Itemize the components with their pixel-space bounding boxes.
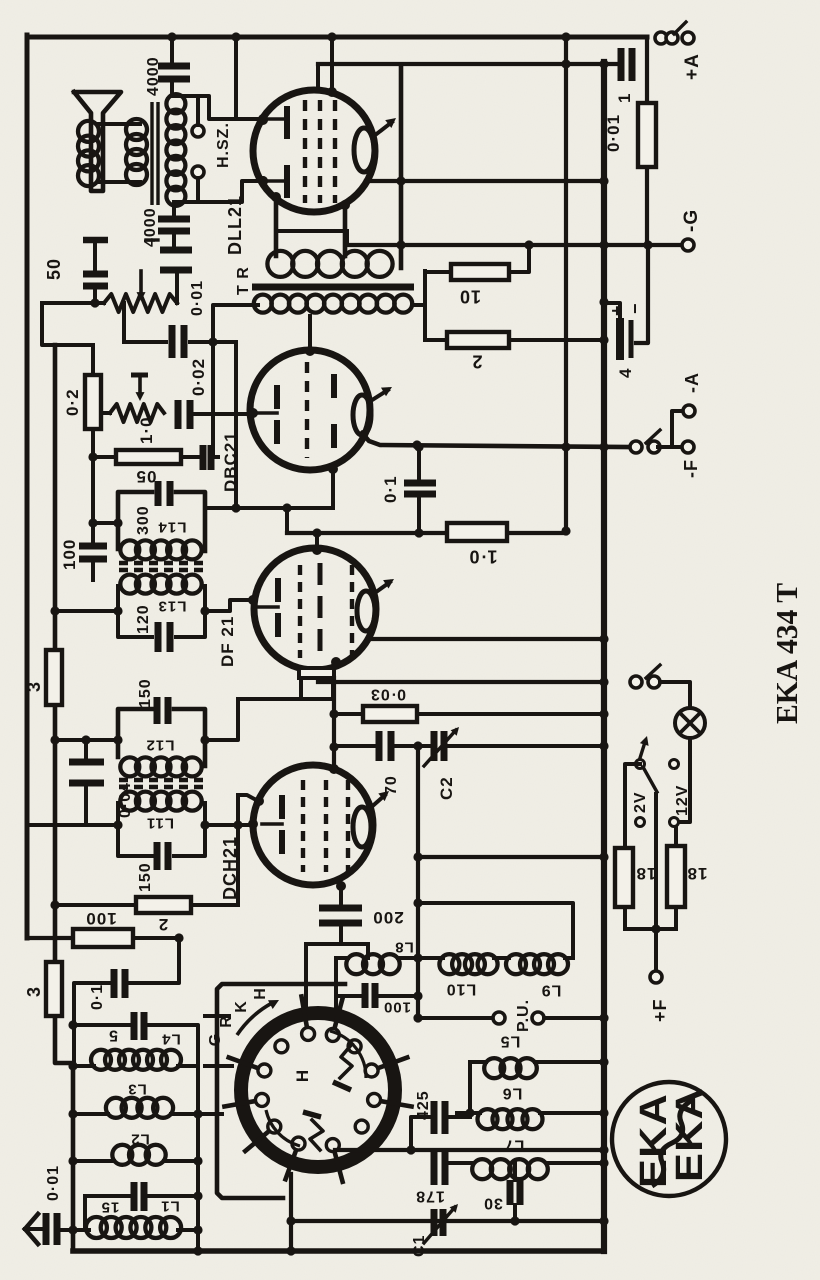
wire TR secondary left feed x=213 — [213, 305, 258, 457]
svg-text:L14: L14 — [158, 519, 187, 536]
terminal H.SZ. upper — [192, 125, 204, 137]
resistor 0.2 vertical — [91, 345, 95, 375]
svg-text:3: 3 — [24, 681, 44, 692]
tube DLL21 anode ellipse — [354, 128, 374, 172]
wire grid row DBC21 y=414 — [194, 412, 250, 416]
wire base box drop — [299, 678, 303, 699]
capacitor 0.1 (row447 to row533) — [417, 447, 421, 479]
wire DLL21 pin to TR center — [343, 205, 348, 256]
wire DLL21 anode row y=181 — [366, 179, 604, 183]
wire left antenna rail x=27 — [25, 35, 30, 938]
tube DF21 base box — [299, 668, 334, 678]
resistor 2 (TR) — [425, 338, 447, 342]
svg-text:L2: L2 — [130, 1131, 150, 1148]
wire switch bottom stub — [289, 1174, 293, 1251]
wire row y=903 — [418, 903, 573, 958]
wire osc grid row y=825 — [27, 823, 118, 827]
wire to dial lamp — [660, 682, 690, 708]
svg-text:+A: +A — [682, 53, 703, 80]
wire DF21 anode row y=639 — [368, 637, 604, 641]
wire switch left taps — [205, 1014, 229, 1018]
IFT1 L11 box — [118, 803, 152, 856]
tube DF21 pin dots — [312, 545, 322, 555]
IFT2 L13 box — [118, 586, 152, 637]
svg-text:P.U.: P.U. — [515, 999, 532, 1032]
svg-text:0·01: 0·01 — [45, 1165, 62, 1201]
capacitor 15 row — [85, 1194, 130, 1198]
switch inner arc upper — [330, 1031, 366, 1078]
svg-text:4000: 4000 — [145, 56, 162, 96]
coil L6 — [457, 1111, 480, 1115]
coil L11 — [120, 792, 139, 811]
capacitor 300 — [155, 481, 162, 506]
wire x=198 lower — [196, 1114, 200, 1251]
wire row y=944 — [306, 942, 368, 946]
capacitor 0.1 osc — [111, 969, 118, 998]
capacitor 4000 top — [158, 63, 190, 70]
svg-text:0·02: 0·02 — [189, 358, 208, 396]
antenna arrow — [25, 1227, 42, 1231]
wire row y=303 — [42, 301, 104, 305]
capacitor 0.01 (speaker chain) — [160, 247, 192, 254]
svg-text:150: 150 — [137, 678, 154, 708]
svg-text:L10: L10 — [446, 980, 477, 997]
svg-text:L12: L12 — [146, 737, 175, 754]
wire grid feed x=236 — [234, 37, 238, 119]
svg-text:L3: L3 — [127, 1081, 147, 1098]
transformer TR primary coil — [267, 251, 293, 277]
svg-text:L5: L5 — [500, 1032, 521, 1049]
svg-text:L8: L8 — [394, 939, 414, 956]
wire grid row y=611 from bus — [55, 609, 118, 613]
wire row to 100k resistor (y=938) — [27, 936, 75, 940]
wire x=93 to IFT2 — [91, 457, 95, 523]
svg-text:10: 10 — [459, 287, 481, 307]
wire row y=1150 — [335, 1148, 604, 1152]
wire blade output to +F — [654, 794, 658, 971]
svg-text:+F: +F — [650, 998, 670, 1022]
terminal group +A with switch — [655, 32, 667, 44]
svg-text:-A: -A — [682, 372, 702, 393]
tube DLL21 grid dashes — [303, 100, 307, 203]
wire DCH21 right link x=238 — [236, 795, 240, 905]
transformer TR secondary coil — [254, 295, 272, 313]
coil L10 — [418, 956, 443, 960]
switch wiper contact upper — [340, 1044, 352, 1078]
logo EKA circle — [612, 1082, 726, 1196]
speaker horn — [74, 92, 121, 191]
wire 0.1 osc left lead — [74, 983, 114, 1063]
capacitor 4000 bottom — [158, 216, 190, 223]
svg-text:H: H — [252, 988, 269, 1000]
band arrow arc — [237, 1003, 272, 1035]
capacitor DBC21 coupling — [181, 455, 199, 459]
wire -A/-F bracket — [658, 445, 672, 449]
svg-text:L7: L7 — [504, 1136, 525, 1153]
svg-text:+: + — [607, 304, 627, 316]
wire row y=905 — [55, 903, 136, 907]
switch -F blade — [630, 441, 642, 453]
svg-text:K: K — [233, 1001, 250, 1013]
coil L14 — [120, 540, 139, 559]
coil L7 — [445, 1161, 473, 1165]
wire long vertical x=566 — [564, 37, 568, 531]
capacitor 0.04 — [84, 740, 88, 759]
wire top rail (+A feed, portrait row y=37) — [27, 35, 647, 40]
wire anode riser x=401 — [399, 65, 404, 268]
tube DLL21 anode arrow — [374, 122, 392, 136]
svg-text:2: 2 — [471, 352, 482, 372]
tube DF21 filament bars — [275, 578, 281, 602]
terminal -G — [682, 239, 694, 251]
svg-text:425: 425 — [415, 1090, 432, 1120]
capacitor 50 — [83, 237, 108, 244]
svg-text:C2: C2 — [437, 776, 456, 800]
svg-text:L1: L1 — [160, 1198, 180, 1215]
wire 0.1 osc right lead — [130, 938, 179, 983]
tube DBC21 grid dash — [305, 362, 309, 458]
wire second top row y=64 — [318, 62, 618, 66]
resistor 3 (bus upper) — [46, 650, 62, 705]
wire PU row — [418, 1016, 493, 1020]
wire bias tap row y=231 — [276, 229, 347, 233]
wire DCH21 top-left pin row — [238, 795, 258, 801]
wire filament riser x=334 — [332, 678, 336, 769]
selector contacts — [670, 760, 679, 769]
coil L13 — [120, 575, 139, 594]
svg-text:H.SZ.: H.SZ. — [215, 122, 232, 168]
terminal -A — [683, 405, 695, 417]
svg-text:4: 4 — [616, 368, 635, 378]
wire lamp row y=682 — [318, 680, 604, 684]
svg-text:L6: L6 — [502, 1084, 523, 1101]
wire osc trunk x=418 — [416, 746, 420, 1018]
svg-text:H: H — [293, 1070, 312, 1082]
socket ring — [241, 1013, 395, 1167]
trimmer C2 — [431, 731, 438, 761]
antenna capacitor 0.01 — [43, 1213, 50, 1245]
svg-text:18: 18 — [687, 864, 708, 883]
svg-text:05: 05 — [136, 467, 157, 486]
speaker voice coil — [78, 121, 99, 142]
resistor 100 — [73, 929, 133, 947]
switch wiper contact lower — [310, 1120, 323, 1150]
svg-text:T R: T R — [235, 266, 252, 295]
resistor 1.0 AF — [447, 523, 507, 541]
capacitor 100 IF — [91, 523, 95, 546]
capacitor 200 — [339, 886, 343, 906]
wire 0.03 row y=714 — [334, 712, 363, 716]
coil L12 — [120, 757, 139, 776]
logo EKA script — [652, 1100, 692, 1186]
capacitor 120 — [155, 622, 162, 652]
battery 4V plates — [616, 318, 624, 360]
wire speaker coil top — [98, 122, 140, 126]
capacitor 70 — [376, 731, 383, 761]
svg-text:3: 3 — [24, 986, 44, 997]
svg-text:1·0: 1·0 — [468, 547, 497, 567]
svg-text:150: 150 — [137, 862, 154, 892]
wire resistor bottoms row — [623, 907, 627, 929]
svg-text:5: 5 — [108, 1026, 118, 1043]
svg-text:0·01: 0·01 — [189, 280, 206, 316]
resistor 2 (osc) — [136, 897, 191, 913]
wire corner to left bus — [42, 303, 93, 345]
wire speaker coil bottom — [98, 180, 140, 184]
IFT2 core dashes — [119, 561, 205, 566]
tube DBC21 filament bars — [274, 385, 280, 409]
wire +A dropper column x=647 — [645, 37, 649, 103]
capacitor 5 — [131, 1012, 138, 1040]
IFT1 L12 box — [118, 709, 152, 757]
svg-text:15: 15 — [101, 1199, 120, 1216]
capacitor 150 upper — [154, 697, 161, 724]
wire AVC row y=746 — [334, 744, 374, 748]
svg-text:100: 100 — [383, 999, 411, 1016]
terminal +F — [650, 971, 662, 983]
svg-text:L13: L13 — [158, 598, 187, 615]
wire DF21 top pin — [315, 533, 319, 550]
wire vertical x=236 to detector row — [234, 342, 238, 508]
wire L5-L6 riser — [468, 1062, 472, 1113]
wire L5 row — [470, 1060, 486, 1064]
tube DCH21 envelope — [253, 765, 373, 885]
transformer TR core bar — [252, 284, 414, 291]
pot2 wiper — [131, 373, 148, 378]
wire detector row y=508 — [205, 506, 333, 510]
wire DBC21 bottom pin to detector row — [331, 469, 335, 508]
capacitor 100 osc — [336, 994, 361, 998]
wire row y=533 — [287, 531, 563, 535]
coil L2 row — [73, 1159, 114, 1163]
svg-text:300: 300 — [135, 505, 152, 535]
wire HSZ top row — [172, 96, 262, 119]
wire capA right lead — [190, 340, 236, 344]
tube DCH21 grid dashes — [301, 780, 305, 872]
trimmer C1 — [431, 1209, 438, 1236]
svg-text:0·2: 0·2 — [63, 388, 82, 416]
IFT1 core dashes — [119, 778, 205, 783]
potentiometer zigzag 50k — [104, 294, 177, 312]
svg-text:178: 178 — [415, 1187, 445, 1204]
svg-text:L4: L4 — [161, 1031, 181, 1048]
svg-text:30: 30 — [483, 1194, 503, 1211]
transformer core (speaker) — [150, 102, 153, 205]
wire L4-L3 right vert x=198 — [196, 1066, 200, 1114]
selector blade — [643, 767, 657, 792]
wire 12V contact to resistor 18b — [674, 827, 678, 846]
wire row y=523 — [93, 521, 118, 525]
tube DBC21 diode plates — [331, 374, 337, 398]
wire link row508-row533 — [285, 508, 289, 533]
terminal H.SZ. lower — [192, 166, 204, 178]
svg-text:0·03: 0·03 — [370, 685, 406, 702]
wire -F switch row y=447 — [362, 433, 630, 447]
wire node x=425 — [423, 271, 427, 340]
dial lamp switch — [630, 676, 642, 688]
svg-text:12V: 12V — [674, 785, 691, 816]
tube DLL21 envelope — [253, 90, 375, 212]
svg-text:EKA 434 T: EKA 434 T — [769, 583, 804, 724]
wire cap5 row y=1025 — [73, 1023, 130, 1027]
IFT2 L14 box — [118, 492, 152, 549]
tube DBC21 anode arrow — [369, 390, 388, 402]
svg-text:0·1: 0·1 — [89, 984, 106, 1010]
resistor 0.03 — [363, 706, 417, 722]
wire IFT1 link row y=699 — [238, 682, 333, 699]
capacitor 425 — [448, 1115, 470, 1119]
tube DCH21 anode ellipse — [353, 807, 371, 847]
wire lamp to 12V contact — [679, 738, 690, 822]
resistor 18a — [615, 848, 633, 907]
resistor 0.01 1W vertical — [638, 103, 656, 167]
tube DBC21 pin dots — [305, 346, 315, 356]
wire -G row y=245 — [347, 243, 683, 247]
tube DBC21 anode ellipse — [353, 395, 371, 435]
wire row y=64 corner to tube — [316, 64, 320, 91]
tube DCH21 pin dots — [329, 764, 339, 774]
wire 100 right lead — [133, 936, 179, 940]
tube DBC21 envelope — [250, 350, 370, 470]
wire DBC21 top pin to TR secondary — [308, 316, 312, 351]
coil L4 row — [73, 1064, 94, 1068]
capacitor 0.01 upper (plates x171/184) — [169, 325, 176, 358]
svg-text:2V: 2V — [632, 791, 649, 813]
svg-text:2: 2 — [158, 915, 168, 934]
socket pins — [302, 1027, 315, 1040]
coil L9 — [494, 956, 509, 960]
tube DCH21 filament bars — [279, 795, 285, 819]
capacitor 150 lower — [154, 842, 161, 870]
capacitor 0.02 — [175, 400, 182, 429]
capacitor +A blocking (plates on row 64) — [618, 48, 625, 81]
pot wiper arrow — [139, 271, 143, 295]
svg-text:-G: -G — [681, 209, 702, 232]
selector pivot — [636, 760, 645, 769]
capacitor 178 — [431, 1150, 438, 1185]
svg-text:C1: C1 — [411, 1235, 428, 1257]
tube DF21 anode ellipse — [357, 591, 375, 631]
svg-text:DLL21: DLL21 — [225, 195, 245, 255]
svg-text:50: 50 — [44, 258, 64, 280]
svg-text:0·1: 0·1 — [381, 475, 400, 503]
capacitor 30 — [513, 1163, 517, 1180]
wire DLL21 top pin to rail — [330, 37, 334, 92]
potentiometer 1.0 zigzag — [101, 411, 110, 415]
switch box walls — [217, 984, 345, 1198]
resistor 18b — [667, 846, 685, 907]
svg-text:18: 18 — [636, 864, 657, 883]
svg-text:-F: -F — [681, 459, 701, 478]
transformer secondary coil (speaker) — [166, 94, 185, 113]
resistor 05 horizontal — [93, 455, 116, 459]
svg-text:100: 100 — [60, 539, 79, 570]
svg-text:1·0: 1·0 — [137, 416, 156, 444]
wire IFT1 right riser x=238 — [205, 699, 238, 740]
tube DLL21 filament bars — [284, 106, 290, 139]
tube DLL21 pin dots — [258, 114, 268, 124]
terminal -F — [682, 441, 694, 453]
wire left bus x=55 — [55, 345, 73, 1251]
wire IFT2 to DF21 grid — [205, 600, 250, 611]
svg-text:L9: L9 — [541, 981, 562, 998]
wire main right bus x=604 — [601, 62, 607, 1251]
svg-text:L11: L11 — [146, 815, 174, 832]
wire row y=1221 — [291, 1219, 604, 1223]
coil L3 row — [73, 1112, 108, 1116]
tube DF21 screen bars — [318, 563, 323, 660]
svg-text:DF 21: DF 21 — [218, 616, 237, 667]
svg-text:G: G — [207, 1034, 224, 1046]
svg-text:0·01: 0·01 — [604, 114, 623, 152]
svg-text:−: − — [625, 302, 645, 314]
coil L1 row — [61, 1228, 89, 1232]
svg-text:DBC21: DBC21 — [221, 431, 240, 492]
tube DF21 envelope — [254, 548, 376, 670]
tube DF21 anode arrow — [372, 582, 390, 595]
wire row y=740 — [55, 738, 118, 742]
wire heater row y=857 — [418, 855, 604, 859]
svg-text:200: 200 — [372, 908, 403, 927]
wire TR secondary right to 10/2 node — [412, 303, 425, 307]
switch inner arc lower — [266, 1110, 300, 1146]
wire riser x=566 bottom — [561, 526, 570, 535]
dial lamp — [675, 708, 705, 738]
svg-text:1: 1 — [615, 93, 634, 103]
svg-text:100: 100 — [85, 909, 116, 928]
coil L8 — [336, 956, 348, 960]
tube DCH21 anode arrow — [368, 795, 385, 810]
tube DF21 grid dashes — [298, 565, 302, 658]
socket stubs — [302, 996, 307, 1025]
voltage selector arrow — [640, 742, 645, 758]
resistor 3 lower (on bus) — [46, 962, 62, 1016]
wire capA left lead — [122, 303, 126, 342]
svg-text:120: 120 — [135, 604, 152, 634]
wire HSZ bottom row — [176, 181, 262, 202]
wire DLL21 cathode to TR primary — [274, 197, 279, 256]
wire selector to resistor 18a — [625, 764, 640, 848]
transformer primary coil (speaker) — [126, 119, 147, 140]
wire bottom rail y=1251 — [73, 1248, 604, 1254]
resistor 10 — [425, 270, 451, 274]
